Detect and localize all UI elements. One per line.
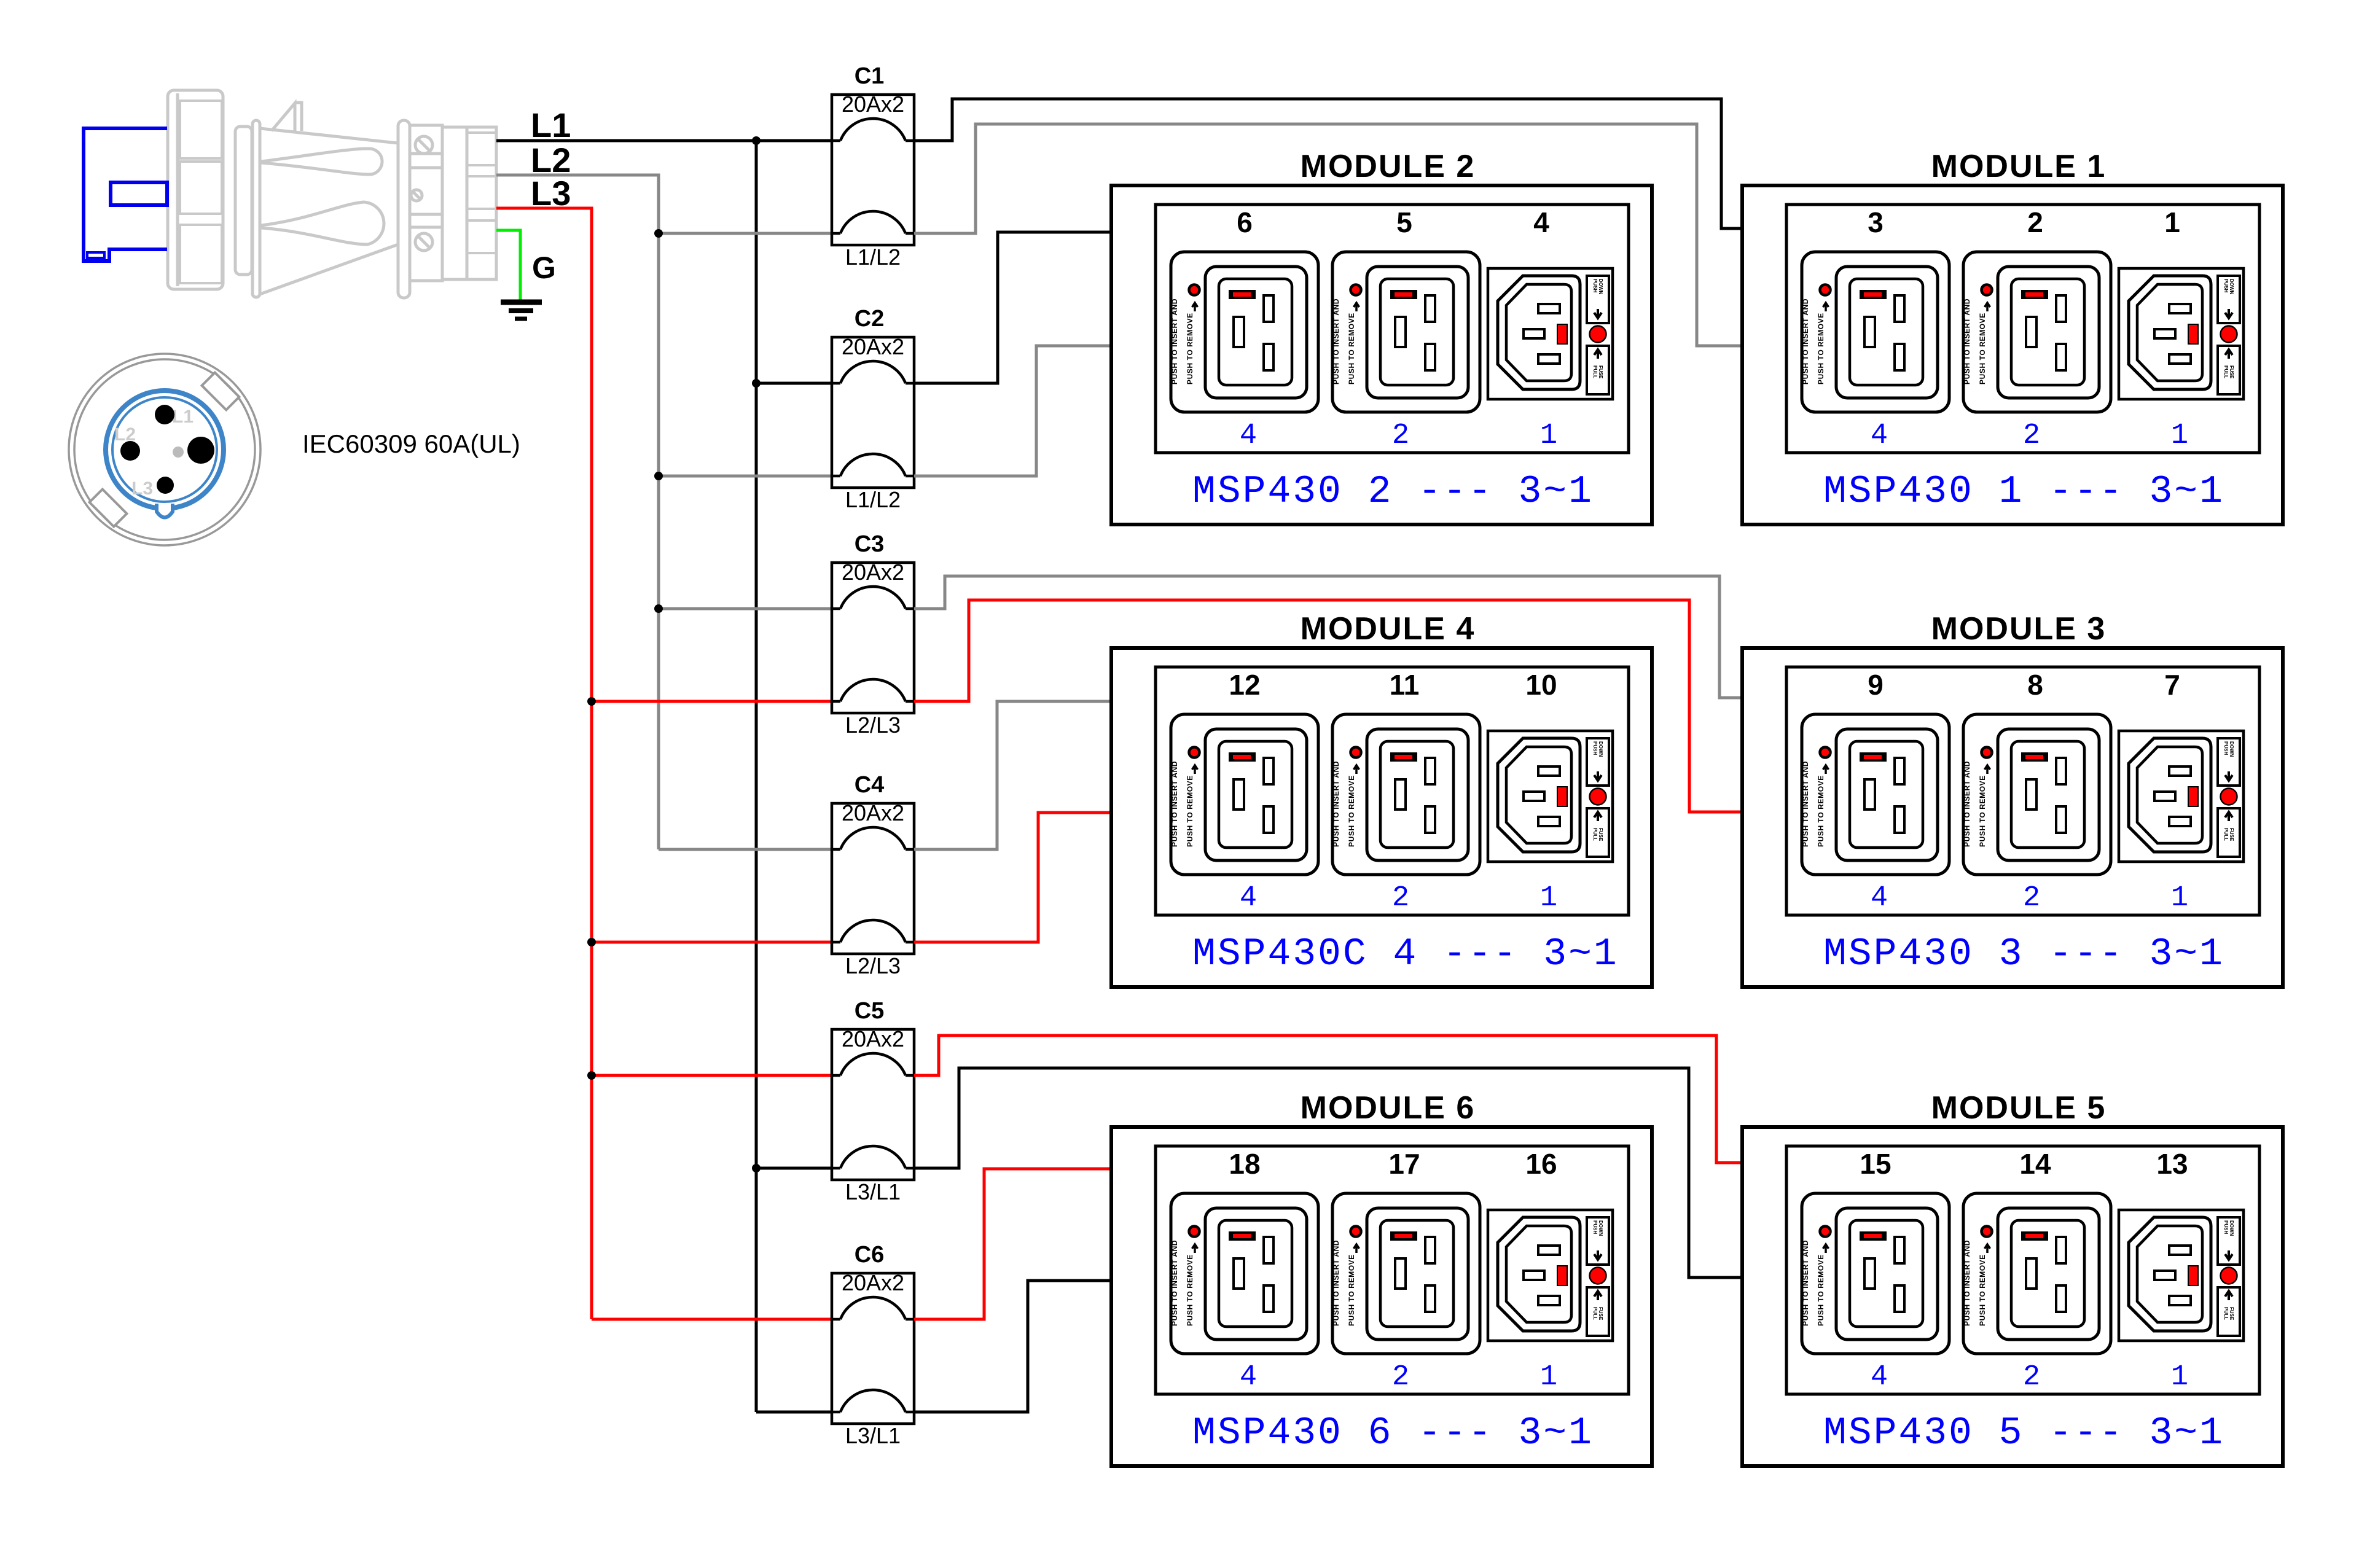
module 1 frame [1742,185,2283,525]
svg-text:10: 10 [1525,669,1557,701]
module 6 outlet 16 (C13 fused) [1488,1210,1613,1341]
module 2 outlet 6 (C19) [1170,252,1318,412]
module 5 outlet 13 (C13 fused) [2119,1210,2244,1341]
node L2-C3 junction [654,604,663,613]
svg-text:1: 1 [2171,1361,2188,1394]
node L3-C4 junction [587,938,596,946]
svg-text:5: 5 [1396,206,1412,238]
svg-text:4: 4 [1871,419,1888,452]
svg-text:20Ax2: 20Ax2 [842,1026,904,1051]
module 3 outlet 9 (C19) [1801,714,1949,875]
svg-text:MODULE 3: MODULE 3 [1931,611,2107,647]
module 6 frame [1111,1127,1652,1466]
svg-text:MSP430 1 --- 3~1: MSP430 1 --- 3~1 [1823,470,2224,513]
svg-text:MSP430 6 --- 3~1: MSP430 6 --- 3~1 [1192,1411,1594,1455]
plug cable clamp (blue) [84,128,167,261]
node L2-C1 junction [654,229,663,238]
wire C5 L3 to module 5 [914,1036,1742,1163]
svg-text:C4: C4 [855,772,885,798]
svg-text:C3: C3 [855,531,885,557]
svg-text:1: 1 [1540,419,1557,452]
module 4 outlet 12 (C19) [1170,714,1318,875]
svg-text:L3/L1: L3/L1 [845,1179,901,1204]
svg-text:20Ax2: 20Ax2 [842,334,904,359]
svg-text:1: 1 [2171,882,2188,915]
wire L2 tap to C4 [659,848,832,851]
module 2 outlet 5 (C19) [1332,252,1480,412]
svg-text:MSP430 2 --- 3~1: MSP430 2 --- 3~1 [1192,470,1594,513]
svg-text:MSP430 5 --- 3~1: MSP430 5 --- 3~1 [1823,1411,2224,1455]
svg-text:MODULE 2: MODULE 2 [1301,149,1476,184]
svg-text:4: 4 [1871,1361,1888,1394]
wire L3 tap to C6 [592,1318,832,1321]
wire C2 L1 to module 2 [914,232,1111,383]
node L3-C3 junction [587,697,596,706]
IEC60309 plug P1 (side view) [168,90,496,298]
svg-text:20Ax2: 20Ax2 [842,560,904,585]
wire L3 tap to C4 [592,941,832,944]
svg-text:MODULE 5: MODULE 5 [1931,1090,2107,1126]
svg-text:16: 16 [1525,1148,1557,1180]
svg-text:4: 4 [1240,419,1257,452]
svg-text:MSP430 3 --- 3~1: MSP430 3 --- 3~1 [1823,932,2224,976]
breaker C2 [832,337,914,488]
svg-text:2: 2 [2023,882,2040,915]
svg-text:20Ax2: 20Ax2 [842,1270,904,1295]
module 3 frame [1742,648,2283,987]
svg-text:2: 2 [1392,1361,1409,1394]
svg-text:2: 2 [2023,419,2040,452]
svg-text:L2/L3: L2/L3 [845,953,901,978]
svg-text:4: 4 [1240,1361,1257,1394]
svg-text:L3: L3 [531,174,571,213]
module 3 outlet 8 (C19) [1963,714,2111,875]
svg-text:L3: L3 [131,478,153,499]
module 5 outlet 15 (C19) [1801,1193,1949,1354]
svg-text:17: 17 [1388,1148,1420,1180]
svg-text:IEC60309 60A(UL): IEC60309 60A(UL) [302,429,520,458]
svg-text:11: 11 [1390,669,1420,701]
wire C2 L2 to module 2 [914,346,1111,476]
IEC60309 connector face view [69,354,260,545]
svg-text:MSP430C 4 --- 3~1: MSP430C 4 --- 3~1 [1192,932,1619,976]
svg-text:15: 15 [1860,1148,1891,1180]
module 1 outlet 1 (C13 fused) [2119,268,2244,399]
breaker C1 [832,95,914,245]
svg-text:7: 7 [2164,669,2180,701]
breaker C6 [832,1273,914,1424]
module 6 outlet 17 (C19) [1332,1193,1480,1354]
svg-text:18: 18 [1229,1148,1260,1180]
module 2 outlet 4 (C13 fused) [1488,268,1613,399]
svg-text:9: 9 [1868,669,1884,701]
module 4 outlet 11 (C19) [1332,714,1480,875]
svg-text:3: 3 [1868,206,1884,238]
wire L1 tap to C5 [756,1167,832,1170]
svg-text:MODULE 1: MODULE 1 [1931,149,2107,184]
svg-text:MODULE 6: MODULE 6 [1301,1090,1476,1126]
wire C6 L3 to module 6 [914,1169,1111,1319]
svg-text:L1/L2: L1/L2 [845,244,901,270]
module 4 frame [1111,648,1652,987]
ground symbol [501,302,542,319]
svg-text:L1/L2: L1/L2 [845,487,901,512]
svg-text:20Ax2: 20Ax2 [842,800,904,825]
svg-text:1: 1 [1540,1361,1557,1394]
svg-text:C5: C5 [855,998,885,1024]
svg-text:MODULE 4: MODULE 4 [1301,611,1476,647]
svg-text:C6: C6 [855,1242,885,1268]
wire L1 tap to C2 [756,382,832,385]
svg-text:1: 1 [2171,419,2188,452]
svg-text:L2/L3: L2/L3 [845,712,901,738]
wire C1 L2 to module 1 [914,124,1742,346]
svg-text:4: 4 [1240,882,1257,915]
svg-text:2: 2 [2023,1361,2040,1394]
wire C4 L3 to module 4 [914,813,1111,942]
module 2 frame [1111,185,1652,525]
wire L3 tap to C5 [592,1074,832,1077]
svg-text:13: 13 [2156,1148,2188,1180]
wire C6 L1 to module 6 [914,1281,1111,1412]
node L1-C5 junction [752,1164,761,1172]
wire C1 L1 to module 1 [914,99,1742,228]
module 3 outlet 7 (C13 fused) [2119,731,2244,862]
node L2-C2 junction [654,472,663,480]
module 1 outlet 2 (C19) [1963,252,2111,412]
wire L3 tap to C3 [592,700,832,703]
wire L1 tap to C6 [756,1411,832,1414]
svg-text:L3/L1: L3/L1 [845,1423,901,1448]
breaker C5 [832,1029,914,1180]
wire L2 tap to C2 [659,475,832,478]
svg-text:14: 14 [2019,1148,2051,1180]
wire C3 L3 to module 3 [914,600,1742,812]
svg-text:20Ax2: 20Ax2 [842,92,904,117]
wire L1 (black phase from plug) [496,139,832,142]
svg-text:2: 2 [1392,882,1409,915]
node L1-C1 junction [752,136,761,145]
svg-text:G: G [532,251,556,285]
module 5 frame [1742,1127,2283,1466]
module 5 outlet 14 (C19) [1963,1193,2111,1354]
wire L2 tap to C1 [659,232,832,235]
svg-text:4: 4 [1871,882,1888,915]
svg-text:2: 2 [1392,419,1409,452]
node L3-C5 junction [587,1071,596,1080]
wire C5 L1 to module 5 [914,1068,1742,1277]
module 4 outlet 10 (C13 fused) [1488,731,1613,862]
svg-text:12: 12 [1229,669,1260,701]
svg-text:2: 2 [2027,206,2043,238]
breaker C3 [832,563,914,713]
wire C4 L2 to module 4 [914,701,1111,849]
node L1-C2 junction [752,379,761,388]
svg-text:1: 1 [2164,206,2180,238]
wire L2 (grey phase from plug) [496,175,659,849]
wire L3 (red phase from plug) [496,208,592,1319]
breaker C4 [832,803,914,954]
svg-text:L1: L1 [172,407,194,427]
wire G (green ground) [496,230,520,302]
module 6 outlet 18 (C19) [1170,1193,1318,1354]
svg-text:L1: L1 [531,106,571,144]
svg-text:6: 6 [1237,206,1253,238]
svg-text:1: 1 [1540,882,1557,915]
wire C3 L2 to module 3 [914,576,1742,698]
wire L1 bus vertical [755,141,758,1412]
svg-text:4: 4 [1533,206,1549,238]
wire L2 tap to C3 [659,607,832,610]
svg-text:8: 8 [2027,669,2043,701]
svg-text:C2: C2 [855,306,885,332]
module 1 outlet 3 (C19) [1801,252,1949,412]
svg-text:C1: C1 [855,63,885,89]
